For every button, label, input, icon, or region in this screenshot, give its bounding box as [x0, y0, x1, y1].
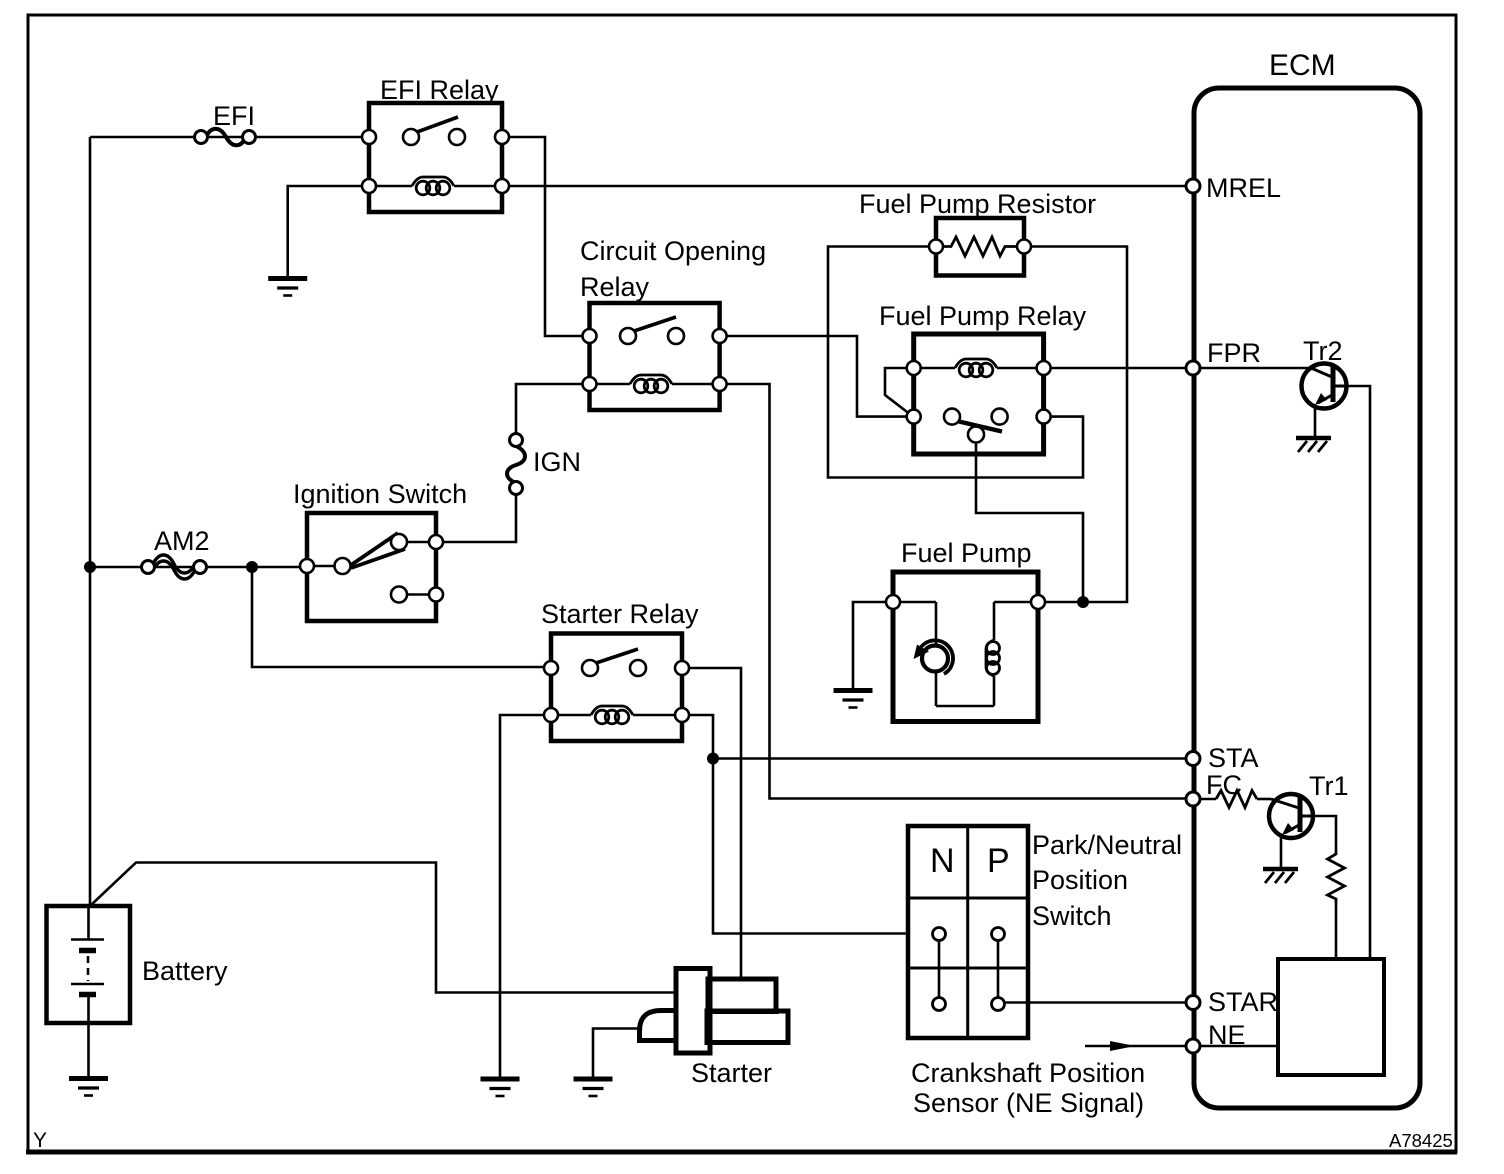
- relay EFI Relay box: [369, 103, 502, 212]
- svg-text:FC: FC: [1206, 770, 1242, 800]
- ground at battery: [69, 1079, 108, 1096]
- park/neutral switch N contacts: [933, 928, 946, 1011]
- svg-text:EFI Relay: EFI Relay: [380, 75, 499, 105]
- wire EFI relay coil to MREL: [502, 185, 1193, 188]
- fuel pump relay contact: [907, 409, 1051, 443]
- park/neutral switch P contacts: [992, 928, 1005, 1011]
- ignition switch lever and contacts: [300, 533, 443, 603]
- svg-text:Position: Position: [1032, 865, 1128, 895]
- fuel pump coil (vertical): [986, 640, 1000, 676]
- ground at fuel pump: [834, 691, 873, 708]
- svg-text:Battery: Battery: [142, 956, 228, 986]
- wire FPR pin to Tr2 base: [1193, 367, 1312, 370]
- fuse IGN: [507, 434, 525, 495]
- svg-text:Sensor (NE Signal): Sensor (NE Signal): [913, 1088, 1144, 1118]
- park/neutral switch dividers: [908, 826, 1028, 1038]
- sensor interface box U2 inside ECM: [1278, 959, 1384, 1075]
- wire AM2 node to starter relay contact: [252, 567, 551, 667]
- battery cells: [71, 906, 104, 1077]
- svg-text:FPR: FPR: [1207, 338, 1261, 368]
- svg-text:Crankshaft Position: Crankshaft Position: [911, 1058, 1145, 1088]
- fuse EFI: [195, 129, 256, 146]
- wire circuit opening relay coil to IGN fuse and ignition switch: [516, 384, 590, 440]
- relay Starter Relay box: [551, 634, 682, 742]
- wire starter relay contact out to starter solenoid: [682, 668, 741, 979]
- svg-text:Starter Relay: Starter Relay: [541, 599, 699, 629]
- svg-text:Switch: Switch: [1032, 901, 1112, 931]
- circuit opening relay coil: [583, 375, 727, 393]
- ground at Tr1 emitter: [1263, 869, 1298, 883]
- starter relay contact: [544, 649, 689, 676]
- relay Circuit Opening Relay box: [590, 303, 720, 410]
- svg-text:STAR: STAR: [1208, 987, 1278, 1017]
- svg-text:P: P: [987, 842, 1010, 880]
- label Circuit Opening Relay: [580, 236, 766, 302]
- svg-text:ECM: ECM: [1269, 49, 1336, 82]
- junction AM2/ignition switch node: [246, 561, 258, 573]
- svg-text:Tr2: Tr2: [1303, 336, 1343, 366]
- pin FPR: [1186, 361, 1200, 375]
- battery B1 box: [47, 906, 131, 1023]
- EFI relay contact: [362, 117, 509, 145]
- wire starter relay coil to STA and park/neutral switch: [682, 715, 908, 934]
- wire FC pin to resistor: [1193, 798, 1216, 801]
- pin MREL: [1186, 179, 1200, 193]
- wire fuel pump relay coil-contact jumper: [885, 368, 914, 415]
- junction fuel pump feed node: [1077, 596, 1089, 608]
- wire battery+ through AM2 fuse to ignition switch: [90, 566, 307, 569]
- wire fuel pump to ground: [853, 602, 893, 689]
- transistor Tr2: [1302, 364, 1349, 438]
- wire starter relay coil to ground: [500, 715, 551, 1077]
- wire battery+ to starter main feed: [90, 863, 676, 993]
- wire battery+ to EFI fuse (top feed): [90, 136, 369, 139]
- svg-text:Fuel Pump: Fuel Pump: [901, 538, 1032, 568]
- pin STA: [1186, 752, 1200, 766]
- ground at Tr2 emitter: [1296, 438, 1331, 452]
- svg-text:Ignition Switch: Ignition Switch: [293, 479, 467, 509]
- wire fuel pump relay movable contact to fuel pump: [976, 440, 1083, 602]
- switch Ignition Switch box: [307, 513, 436, 621]
- EFI relay coil: [362, 177, 509, 195]
- wire node STA to ECM STA pin: [713, 757, 1193, 760]
- fuel pump internal wiring: [893, 602, 1038, 706]
- wire EFI relay contact out down to circuit opening relay: [502, 137, 590, 336]
- switch Park/Neutral Position Switch box: [908, 826, 1028, 1038]
- pin NE: [1186, 1039, 1200, 1053]
- fuel pump relay coil: [907, 359, 1051, 377]
- svg-text:STA: STA: [1208, 743, 1259, 773]
- fuse AM2: [142, 555, 207, 579]
- transistor Tr1: [1269, 794, 1314, 868]
- junction starter relay coil/STA node: [707, 753, 719, 765]
- wire IGN fuse to ignition switch IG terminal: [436, 488, 516, 542]
- svg-text:Circuit Opening: Circuit Opening: [580, 236, 766, 266]
- wire fuel pump resistor to fuel pump: [1024, 247, 1127, 603]
- svg-text:A78425: A78425: [1389, 1130, 1453, 1151]
- label Crankshaft Position Sensor (NE Signal): [911, 1058, 1145, 1118]
- fuel pump terminals: [886, 595, 1045, 609]
- junction battery+/AM2 node: [84, 561, 96, 573]
- wire starter body to ground: [593, 1029, 640, 1078]
- ground at EFI relay coil: [268, 279, 307, 296]
- svg-text:IGN: IGN: [533, 447, 581, 477]
- svg-text:MREL: MREL: [1206, 173, 1281, 203]
- starter relay coil: [544, 706, 689, 724]
- NE signal arrow: [1085, 1041, 1193, 1051]
- wire left vertical battery+ bus: [89, 137, 92, 906]
- svg-text:Fuel Pump Relay: Fuel Pump Relay: [879, 301, 1087, 331]
- svg-text:Fuel Pump Resistor: Fuel Pump Resistor: [859, 189, 1096, 219]
- starter upper body rectangle: [708, 979, 776, 1012]
- starter solenoid rectangle: [676, 969, 710, 1054]
- wire EFI relay coil to ground: [288, 186, 369, 277]
- wire FC resistor to Tr1 base: [1257, 798, 1271, 801]
- wire Tr2 collector to sensor box: [1347, 386, 1370, 959]
- starter lower body rectangle: [707, 1011, 788, 1043]
- ECM outline: [1194, 88, 1420, 1108]
- wire circuit opening relay contact out to fuel pump relay contact: [720, 336, 914, 417]
- svg-text:AM2: AM2: [154, 526, 210, 556]
- pin FC: [1186, 792, 1200, 806]
- svg-text:N: N: [930, 842, 955, 880]
- svg-text:Park/Neutral: Park/Neutral: [1032, 830, 1182, 860]
- resistor at Tr1 collector (vertical): [1328, 851, 1345, 902]
- svg-text:EFI: EFI: [213, 101, 255, 131]
- wire NE signal into sensor box: [1193, 1045, 1278, 1048]
- svg-text:Relay: Relay: [580, 272, 650, 302]
- fuel pump motor M: [914, 640, 954, 674]
- wire circuit opening relay coil to FC: [720, 384, 1193, 799]
- starter drive bell housing: [640, 1011, 677, 1041]
- wire Tr1 collector to resistor and sensor box: [1313, 816, 1336, 851]
- ground at starter body: [574, 1079, 613, 1096]
- svg-text:NE: NE: [1208, 1020, 1246, 1050]
- wire park/neutral switch to STAR pin: [1004, 1001, 1193, 1004]
- svg-text:Starter: Starter: [691, 1058, 772, 1088]
- fuel pump box: [893, 572, 1038, 722]
- fuel pump resistor element: [929, 237, 1031, 256]
- wire fuel pump relay coil to FPR: [1044, 367, 1193, 370]
- circuit opening relay contact: [583, 317, 727, 344]
- ground at starter relay coil: [481, 1079, 520, 1096]
- label Park/Neutral Position Switch: [1032, 830, 1182, 931]
- relay Fuel Pump Relay box: [914, 334, 1044, 454]
- resistor at FC pin: [1216, 791, 1257, 808]
- wire node B vertical to fuel pump resistor: [828, 247, 1083, 478]
- svg-text:Y: Y: [33, 1129, 47, 1152]
- resistor Fuel Pump Resistor box: [936, 218, 1024, 276]
- wire Tr1 resistor to sensor box: [1335, 902, 1338, 959]
- pin STAR: [1186, 996, 1200, 1010]
- svg-text:Tr1: Tr1: [1309, 771, 1349, 801]
